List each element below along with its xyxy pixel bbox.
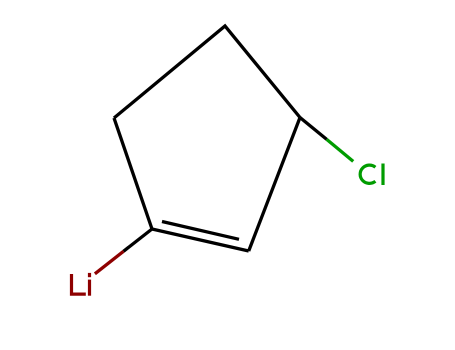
label Li (stroked glyphs) [72,274,90,296]
ring bond C2-C3 [249,118,300,252]
double bond C1=C2 main line [152,229,249,251]
glyph l [381,164,384,186]
bond C1-Li black half [124,229,153,251]
glyph L [72,274,86,294]
double bond C1=C2 inner line [162,222,239,240]
glyph i dot [88,273,91,277]
bond C3-Cl green half [327,139,354,161]
ring bond C5-C1 [114,118,152,229]
ring bond C5-C4-C3 (inverted V bridge) [114,26,300,118]
glyph i stem [88,280,91,296]
bond C1-Li red half [95,251,124,273]
bond C3-Cl black half [300,118,327,140]
glyph C [360,165,375,183]
label Cl (stroked glyphs) [360,164,383,186]
